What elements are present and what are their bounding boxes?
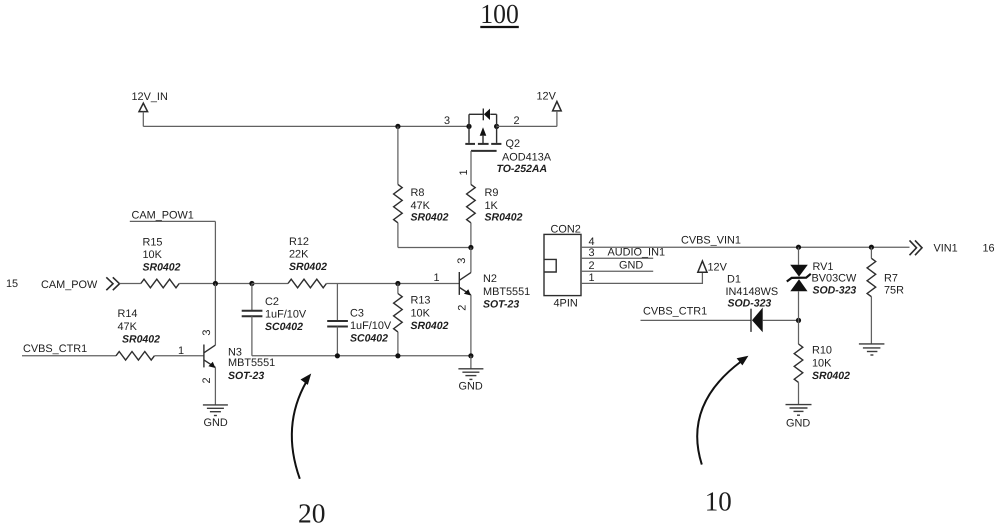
svg-text:SR0402: SR0402 bbox=[289, 261, 327, 273]
capacitor C2 bbox=[242, 284, 307, 356]
svg-text:SR0402: SR0402 bbox=[485, 212, 523, 224]
svg-text:1uF/10V: 1uF/10V bbox=[265, 308, 307, 320]
connector CON2 bbox=[544, 224, 581, 310]
svg-text:SOD-323: SOD-323 bbox=[813, 284, 857, 296]
wire R12 to N2 base bbox=[326, 283, 459, 285]
resistor R15 bbox=[141, 236, 181, 288]
svg-text:SR0402: SR0402 bbox=[411, 212, 449, 224]
node junction C3 bottom bbox=[335, 353, 340, 358]
svg-text:75R: 75R bbox=[884, 285, 904, 297]
TVS diode RV1 bbox=[787, 247, 857, 320]
transistor Q2 (P-MOSFET) bbox=[465, 109, 501, 151]
svg-text:R12: R12 bbox=[289, 236, 309, 248]
svg-text:Q2: Q2 bbox=[506, 138, 521, 150]
svg-text:SOT-23: SOT-23 bbox=[483, 299, 519, 311]
net label CAM_POW1 bbox=[130, 209, 216, 283]
svg-text:R9: R9 bbox=[485, 187, 499, 199]
svg-text:1: 1 bbox=[178, 345, 184, 357]
svg-text:RV1: RV1 bbox=[813, 261, 834, 273]
svg-text:CAM_POW: CAM_POW bbox=[41, 279, 98, 291]
wire R8 bottom to R9 node bbox=[398, 247, 471, 249]
svg-text:GND: GND bbox=[459, 381, 483, 393]
ground below R7 bbox=[859, 344, 885, 355]
wire R15 to junction bbox=[179, 283, 252, 285]
ground below N3 bbox=[203, 405, 228, 429]
svg-text:2: 2 bbox=[457, 305, 469, 311]
node junction C2 top bbox=[249, 281, 254, 286]
wire CON2 pin4 CVBS_VIN1 bbox=[581, 246, 910, 248]
svg-text:2: 2 bbox=[201, 377, 213, 383]
wire CVBS_CTR1 to R14 bbox=[22, 355, 116, 357]
net label AUDIO_IN1 + stub bbox=[581, 246, 665, 258]
resistor R8 bbox=[394, 126, 449, 247]
diode D1 bbox=[751, 308, 799, 333]
svg-text:1: 1 bbox=[434, 272, 440, 284]
port 15 CAM_POW bbox=[6, 277, 120, 291]
node junction D1/R10/RV1 bbox=[796, 318, 801, 323]
svg-text:10K: 10K bbox=[411, 307, 431, 319]
svg-text:12V: 12V bbox=[708, 262, 728, 274]
svg-text:10K: 10K bbox=[143, 249, 163, 261]
svg-text:3: 3 bbox=[589, 247, 595, 259]
svg-text:10K: 10K bbox=[812, 357, 832, 369]
svg-text:10: 10 bbox=[705, 486, 732, 517]
svg-text:D1: D1 bbox=[727, 273, 741, 285]
power symbol 12V_IN bbox=[132, 91, 168, 126]
wire bottom rail bbox=[252, 355, 471, 357]
resistor R12 bbox=[288, 236, 327, 288]
svg-text:SC0402: SC0402 bbox=[350, 333, 388, 345]
svg-text:16: 16 bbox=[983, 243, 995, 255]
title 100 bbox=[480, 0, 519, 29]
svg-text:CVBS_CTR1: CVBS_CTR1 bbox=[23, 343, 87, 355]
node junction N2 emitter bbox=[468, 353, 473, 358]
wire 12V_IN rail bbox=[143, 125, 469, 127]
svg-text:AOD413A: AOD413A bbox=[502, 151, 552, 163]
wire junction to R12 bbox=[252, 283, 288, 285]
svg-text:SR0402: SR0402 bbox=[122, 334, 160, 346]
svg-text:1: 1 bbox=[458, 169, 470, 175]
svg-text:4PIN: 4PIN bbox=[554, 297, 578, 309]
N3 labels bbox=[228, 346, 275, 381]
svg-text:CVBS_VIN1: CVBS_VIN1 bbox=[681, 234, 741, 246]
svg-text:SR0402: SR0402 bbox=[143, 262, 181, 274]
svg-text:IN4148WS: IN4148WS bbox=[726, 286, 779, 298]
node junction R13 top bbox=[395, 281, 400, 286]
ground below N2 bbox=[458, 356, 483, 393]
svg-text:AUDIO_IN1: AUDIO_IN1 bbox=[608, 246, 666, 258]
svg-text:GND: GND bbox=[204, 417, 228, 429]
wire node to N2 collector bbox=[470, 248, 472, 273]
svg-text:SOD-323: SOD-323 bbox=[728, 298, 772, 310]
svg-text:MBT5551: MBT5551 bbox=[483, 286, 530, 298]
svg-text:15: 15 bbox=[6, 278, 18, 290]
resistor R9 bbox=[467, 184, 523, 247]
transistor N2 (NPN) bbox=[459, 272, 471, 356]
svg-text:CVBS_CTR1: CVBS_CTR1 bbox=[643, 305, 707, 317]
svg-text:20: 20 bbox=[298, 497, 326, 527]
svg-text:VIN1: VIN1 bbox=[934, 243, 958, 255]
node junction RV1 top bbox=[796, 245, 801, 250]
node junction R13 bottom bbox=[395, 353, 400, 358]
wire CVBS_CTR1 to D1 bbox=[641, 319, 752, 321]
svg-text:MBT5551: MBT5551 bbox=[228, 357, 275, 369]
ground below R10 bbox=[786, 405, 812, 430]
svg-text:SR0402: SR0402 bbox=[812, 370, 850, 382]
power symbol 12V (top) bbox=[537, 91, 562, 127]
svg-text:BV03CW: BV03CW bbox=[812, 272, 858, 284]
svg-text:100: 100 bbox=[480, 0, 519, 29]
Q2 labels bbox=[497, 138, 552, 175]
svg-text:R15: R15 bbox=[143, 236, 163, 248]
svg-text:TO-252AA: TO-252AA bbox=[497, 163, 548, 175]
resistor R10 bbox=[794, 320, 850, 404]
svg-text:SC0402: SC0402 bbox=[265, 321, 303, 333]
N2 labels bbox=[483, 273, 530, 310]
svg-text:2: 2 bbox=[514, 115, 520, 127]
capacitor C3 bbox=[327, 284, 392, 356]
svg-text:C3: C3 bbox=[350, 307, 364, 319]
resistor R13 bbox=[394, 284, 449, 356]
wire R14 to N3 base bbox=[154, 355, 204, 357]
svg-text:3: 3 bbox=[444, 115, 450, 127]
power symbol 12V (CON2) bbox=[698, 261, 728, 274]
arrow 20 bbox=[292, 374, 326, 527]
svg-text:12V: 12V bbox=[537, 91, 557, 103]
node junction gate/R9/N2 bbox=[468, 245, 473, 250]
svg-text:R8: R8 bbox=[411, 187, 425, 199]
resistor R14 bbox=[116, 308, 160, 360]
svg-text:CAM_POW1: CAM_POW1 bbox=[132, 209, 194, 221]
svg-text:GND: GND bbox=[786, 417, 810, 429]
port VIN1 16 bbox=[910, 240, 995, 255]
svg-text:12V_IN: 12V_IN bbox=[132, 91, 168, 103]
svg-text:N2: N2 bbox=[483, 273, 497, 285]
node junction CAM_POW1 bbox=[213, 281, 218, 286]
node junction R8 top bbox=[395, 124, 400, 129]
svg-text:R14: R14 bbox=[118, 308, 138, 320]
svg-text:47K: 47K bbox=[411, 200, 431, 212]
svg-text:R7: R7 bbox=[884, 273, 898, 285]
svg-text:1: 1 bbox=[589, 272, 595, 284]
svg-text:R13: R13 bbox=[411, 295, 431, 307]
svg-text:R10: R10 bbox=[812, 345, 832, 357]
svg-text:3: 3 bbox=[456, 258, 468, 264]
svg-text:SOT-23: SOT-23 bbox=[228, 370, 264, 382]
wire gate to R9 bbox=[470, 151, 472, 185]
svg-text:1K: 1K bbox=[485, 200, 499, 212]
svg-text:GND: GND bbox=[619, 260, 643, 272]
svg-text:3: 3 bbox=[201, 330, 213, 336]
svg-text:22K: 22K bbox=[289, 249, 309, 261]
svg-text:1uF/10V: 1uF/10V bbox=[350, 320, 392, 332]
resistor R7 bbox=[867, 245, 904, 344]
svg-text:2: 2 bbox=[589, 260, 595, 272]
transistor N3 (NPN) bbox=[204, 284, 216, 405]
diode D1 labels bbox=[726, 273, 779, 309]
svg-text:47K: 47K bbox=[118, 321, 138, 333]
svg-text:SR0402: SR0402 bbox=[411, 320, 449, 332]
arrow 10 bbox=[697, 356, 748, 517]
wire CAM_POW to R15 bbox=[120, 283, 141, 285]
svg-text:C2: C2 bbox=[265, 296, 279, 308]
net label GND + stub bbox=[581, 260, 653, 272]
wire CON2 pin1 to 12V bbox=[581, 272, 702, 283]
wire Q2 drain to 12V bbox=[497, 125, 557, 127]
